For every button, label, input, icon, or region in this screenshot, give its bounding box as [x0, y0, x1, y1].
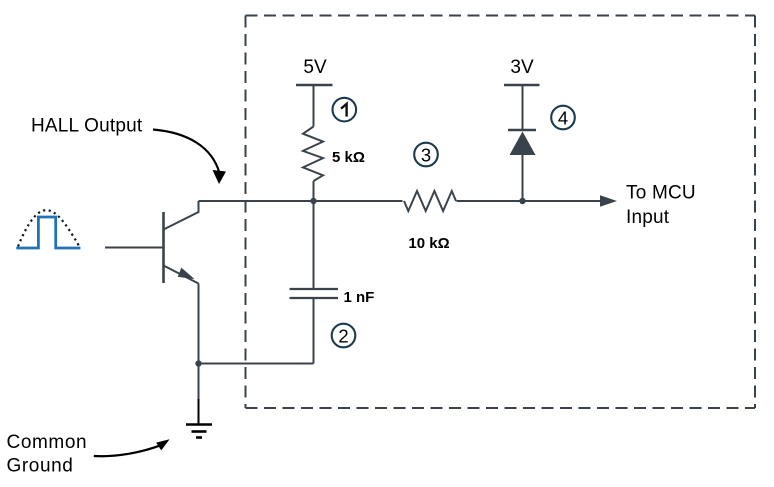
node B junction dot: [519, 198, 525, 204]
hall sensor pulse waveform icon: [16, 217, 80, 248]
svg-text:5V: 5V: [303, 57, 327, 78]
svg-text:1 nF: 1 nF: [344, 289, 375, 306]
wire resistor R2 to MCU arrow: [457, 200, 603, 202]
resistor R2 10k series zigzag: [404, 191, 456, 211]
svg-text:3: 3: [421, 144, 431, 165]
dashed MCU-side boundary box: [246, 16, 756, 409]
wire 5V bar to resistor R1: [313, 85, 315, 127]
power rail 5V bar: [296, 84, 333, 87]
annotation arrow to hall output wire: [153, 130, 220, 174]
arrowhead to MCU input: [600, 195, 617, 207]
svg-text:Input: Input: [626, 207, 670, 228]
svg-text:4: 4: [558, 107, 568, 128]
resistor R1 5k pull-up zigzag: [303, 127, 323, 182]
svg-text:Common: Common: [7, 432, 88, 453]
transistor Q1 emitter arrowhead: [178, 268, 195, 279]
svg-text:10 kΩ: 10 kΩ: [408, 235, 449, 252]
svg-text:3V: 3V: [510, 57, 534, 78]
wire 3V bar to diode D1 cathode: [522, 85, 524, 130]
node A junction dot: [310, 198, 316, 204]
wire capacitor C1 to ground net: [313, 298, 315, 364]
power rail 3V bar: [504, 84, 540, 87]
wire Q1 base lead: [105, 247, 164, 249]
svg-text:5 kΩ: 5 kΩ: [332, 149, 365, 166]
callout circle 4: [551, 106, 575, 130]
callout circle 1: [333, 98, 357, 122]
wire to ground symbol: [198, 364, 200, 400]
diode D1 triangle: [510, 132, 536, 156]
wire ground net horizontal: [199, 363, 314, 365]
svg-text:To MCU: To MCU: [626, 182, 696, 203]
svg-text:2: 2: [338, 325, 348, 346]
dotted bell envelope: [18, 210, 79, 246]
diode D1 clamp cathode bar: [508, 129, 536, 131]
annotation arrow to ground symbol: [94, 445, 161, 456]
wire resistor R1 to node A: [313, 181, 315, 201]
callout circle 3: [414, 143, 438, 167]
svg-text:Ground: Ground: [7, 455, 74, 476]
callout circle 2: [332, 324, 356, 348]
capacitor C1 bottom plate: [290, 297, 339, 299]
wire diode D1 anode to node B: [522, 155, 524, 201]
ground symbol: [186, 399, 212, 438]
transistor Q1 base bar: [162, 212, 165, 283]
wire main horizontal net from collector to resistor R2: [199, 200, 403, 202]
wire Q1 emitter down: [198, 284, 200, 364]
node C junction dot: [195, 360, 201, 366]
svg-text:HALL Output: HALL Output: [31, 116, 143, 137]
wire node A down to capacitor C1: [313, 201, 315, 289]
transistor Q1 emitter: [164, 266, 199, 284]
transistor Q1 collector: [164, 201, 199, 230]
capacitor C1 top plate: [290, 288, 339, 290]
